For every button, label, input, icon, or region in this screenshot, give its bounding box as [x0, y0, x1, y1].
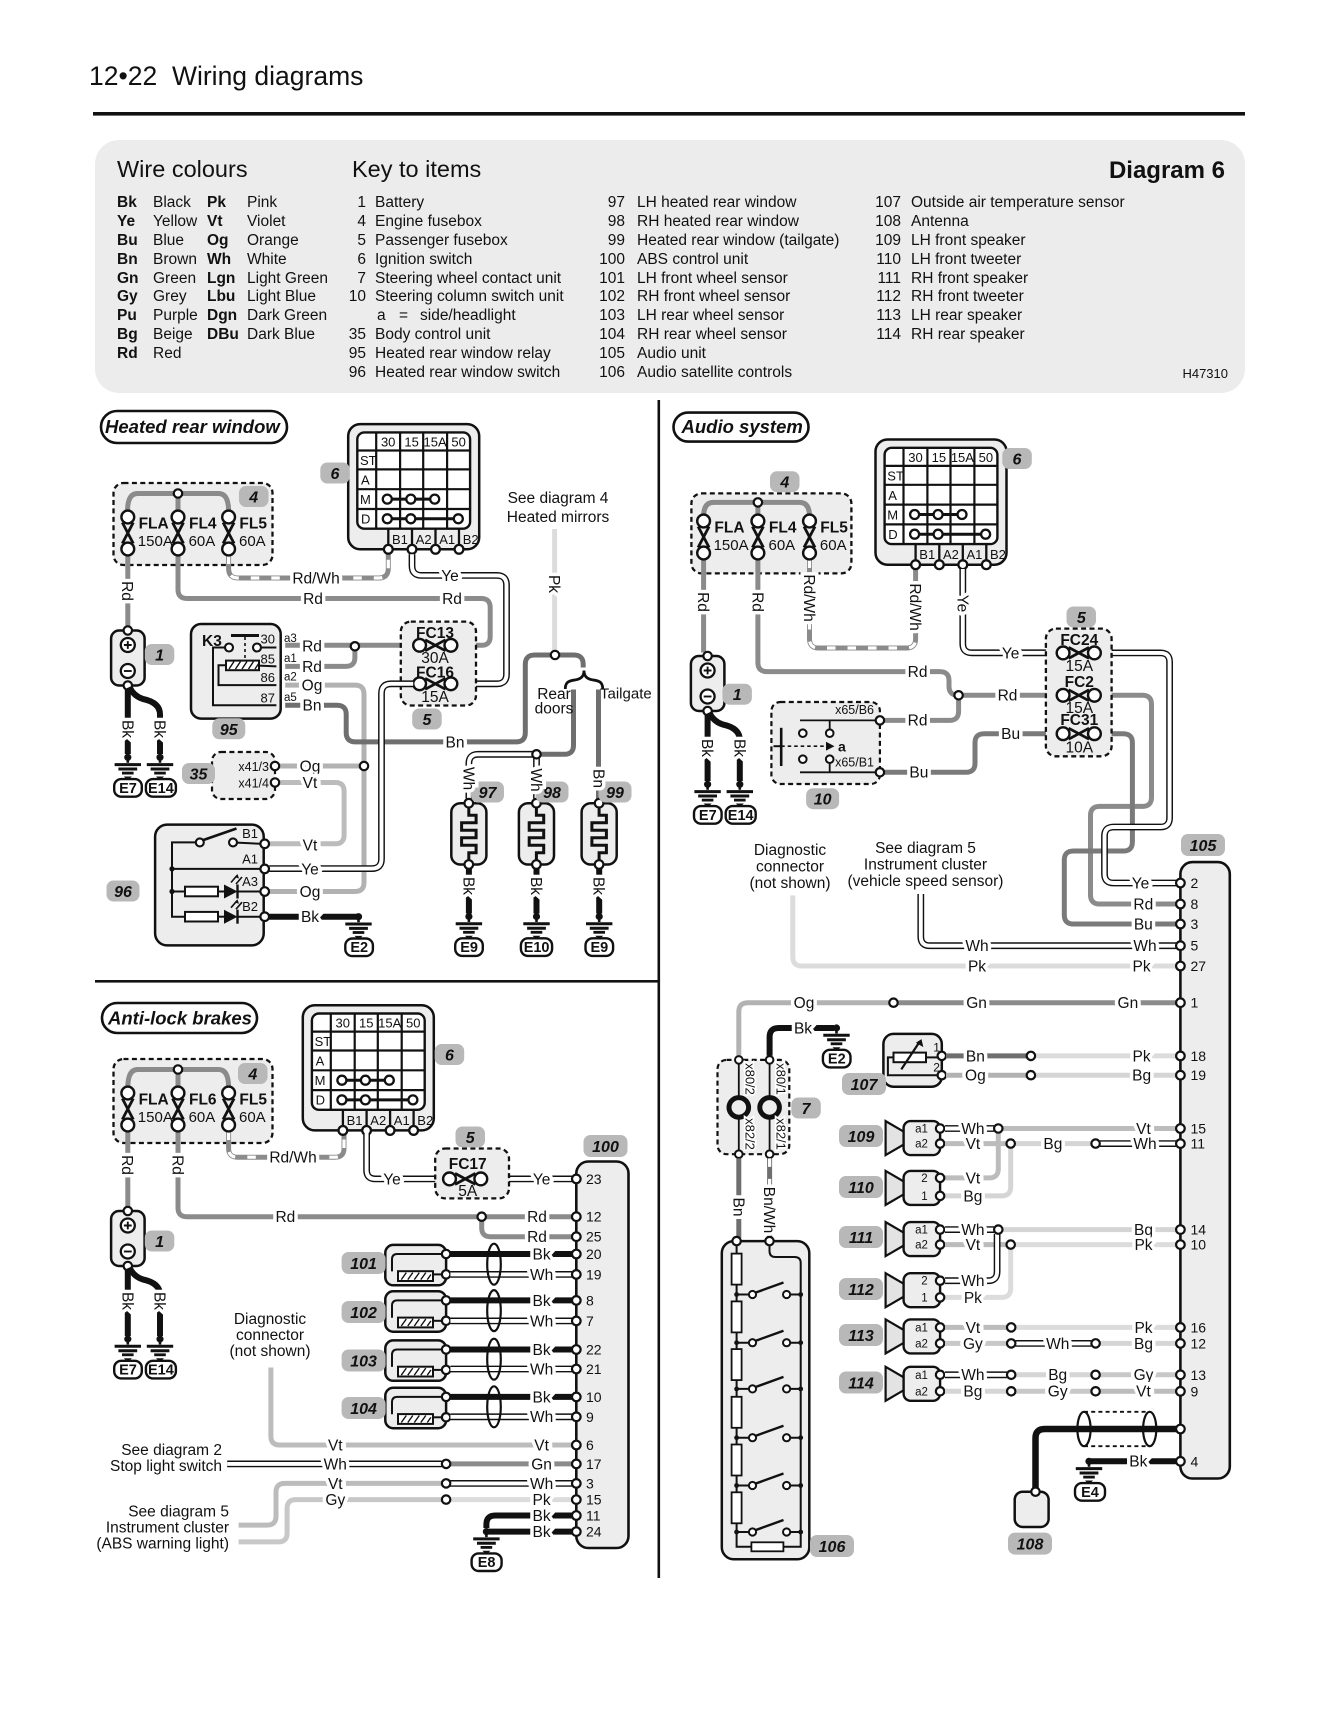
- text rear doors: [535, 686, 574, 718]
- ABS pins: [572, 1175, 581, 1536]
- svg-text:Bk: Bk: [590, 877, 607, 895]
- svg-text:Dgn: Dgn: [207, 307, 237, 324]
- wire Bk: audio pin 4 to ground E4: [1091, 1458, 1176, 1464]
- svg-text:1: 1: [733, 687, 742, 704]
- wire Rd: FC13 to relay pin 30/a3: [285, 643, 413, 648]
- svg-text:E2: E2: [828, 1052, 846, 1068]
- svg-text:Rd/Wh: Rd/Wh: [800, 574, 817, 621]
- svg-text:Vt: Vt: [328, 1476, 343, 1493]
- wire Wh: sensor 101 to pin 19: [450, 1271, 572, 1278]
- wire Gy: 113 a2: [945, 1341, 1007, 1346]
- svg-text:Red: Red: [153, 345, 181, 362]
- key items column 3: [875, 194, 1125, 343]
- wire Wh: 109 a1: [945, 1125, 994, 1132]
- svg-text:15A: 15A: [1066, 658, 1094, 675]
- RH front speaker 111: [886, 1222, 941, 1256]
- wire Ye: ignition A1 to fuse FC24: [963, 569, 1057, 653]
- svg-text:Ye: Ye: [383, 1171, 401, 1188]
- wire Bk: battery to E7: [125, 1269, 131, 1336]
- svg-text:(vehicle speed sensor): (vehicle speed sensor): [848, 873, 1004, 890]
- wire Rd: FLA to battery: [701, 560, 706, 653]
- svg-text:Green: Green: [153, 270, 196, 287]
- svg-text:Dark Blue: Dark Blue: [247, 326, 315, 343]
- svg-text:H47310: H47310: [1182, 366, 1228, 381]
- svg-text:Bg: Bg: [1134, 1336, 1153, 1353]
- fuse FL4 60A: [752, 515, 797, 560]
- antenna 108: [1015, 1488, 1049, 1528]
- text see diagram 5 instrument cluster: [96, 1504, 229, 1553]
- wire Bk window 97 to ground: [466, 869, 472, 914]
- badge 101: [342, 1252, 386, 1274]
- ignition switch 6: [876, 440, 1007, 570]
- wire Rd: FL6 to ABS pin 12: [178, 1132, 572, 1217]
- svg-text:101: 101: [350, 1256, 377, 1273]
- svg-text:Bk: Bk: [117, 194, 137, 211]
- svg-text:Rd: Rd: [748, 592, 765, 612]
- text diagnostic connector: [230, 1311, 311, 1360]
- wire Wh: junction to window 97: [469, 754, 537, 798]
- svg-text:Pk: Pk: [207, 194, 226, 211]
- svg-text:E8: E8: [478, 1555, 496, 1571]
- wire Vt: 111 a2: [945, 1242, 1006, 1247]
- badge 112: [839, 1278, 883, 1300]
- battery 1: [691, 652, 725, 715]
- wire Bk window 98 to ground: [534, 869, 540, 914]
- svg-text:9: 9: [1191, 1383, 1199, 1399]
- svg-text:Key to items: Key to items: [352, 156, 481, 182]
- battery 1: [111, 626, 145, 689]
- svg-text:Pink: Pink: [247, 194, 277, 211]
- svg-text:doors: doors: [535, 701, 574, 718]
- svg-text:Pk: Pk: [1133, 958, 1151, 975]
- engine fusebox 4 (dashed): [114, 483, 273, 565]
- badge 6: [435, 1044, 465, 1065]
- svg-text:Pk: Pk: [1133, 1048, 1151, 1065]
- wire Vt: body control x41/4 to switch B1: [269, 783, 344, 844]
- svg-text:Og: Og: [300, 758, 321, 775]
- svg-text:side/headlight: side/headlight: [420, 307, 516, 324]
- svg-text:96: 96: [349, 364, 366, 381]
- wire Wh: junction to pin 3: [446, 1480, 572, 1487]
- wire Ye: FC24 to audio pin 2: [1101, 653, 1176, 883]
- relay pin labels a3 a1 a2 a5: [284, 633, 297, 704]
- svg-text:Rd: Rd: [118, 1155, 135, 1175]
- audio unit pins: [1176, 879, 1185, 1466]
- svg-text:Rd: Rd: [908, 664, 928, 681]
- svg-text:E7: E7: [119, 781, 137, 797]
- svg-text:Bn: Bn: [966, 1048, 985, 1065]
- wire Bk: battery to E7: [705, 714, 711, 781]
- junction nodes 109: [994, 1124, 1002, 1132]
- svg-text:Ye: Ye: [1002, 645, 1020, 662]
- steering column switch unit 10 (dashed): [771, 702, 884, 784]
- svg-text:Bk: Bk: [527, 877, 544, 895]
- svg-text:114: 114: [848, 1376, 874, 1393]
- svg-text:110: 110: [848, 1180, 874, 1197]
- ground E14: [146, 1335, 176, 1378]
- svg-text:2: 2: [921, 1276, 927, 1288]
- svg-text:Wh: Wh: [324, 1456, 347, 1473]
- badge 1: [145, 644, 175, 665]
- ignition switch 6: [348, 424, 479, 554]
- svg-text:Orange: Orange: [247, 232, 299, 249]
- badge 7: [791, 1098, 821, 1119]
- svg-text:Wire colours: Wire colours: [117, 156, 248, 182]
- junction node 107 pin2: [1027, 1071, 1035, 1079]
- svg-text:LH front tweeter: LH front tweeter: [911, 251, 1021, 268]
- svg-text:x41/3: x41/3: [238, 760, 269, 774]
- svg-text:RH heated rear window: RH heated rear window: [637, 213, 800, 230]
- wire Vt: instrument cluster to junction row 3: [239, 1483, 442, 1525]
- svg-text:Bg: Bg: [1132, 1068, 1151, 1085]
- wire Gy: mid segment 114 a2: [1016, 1389, 1092, 1394]
- svg-text:Og: Og: [207, 232, 229, 249]
- svg-text:Heated mirrors: Heated mirrors: [507, 509, 610, 526]
- svg-text:Rd: Rd: [527, 1209, 547, 1226]
- svg-text:Wh: Wh: [530, 1409, 553, 1426]
- svg-text:10: 10: [349, 288, 367, 305]
- svg-text:a2: a2: [284, 672, 297, 684]
- svg-text:DBu: DBu: [207, 326, 239, 343]
- badge 103: [342, 1350, 386, 1372]
- note: see diagram 4 heated mirrors: [507, 490, 610, 526]
- svg-text:(not shown): (not shown): [750, 875, 831, 892]
- svg-text:Bk: Bk: [1129, 1454, 1147, 1471]
- svg-text:Wh: Wh: [1046, 1336, 1069, 1353]
- brace splitting rear window feed: [565, 671, 602, 690]
- svg-text:See diagram 5: See diagram 5: [875, 840, 976, 857]
- svg-text:Diagnostic: Diagnostic: [754, 842, 827, 859]
- LH rear wheel sensor 103: [385, 1340, 450, 1380]
- wire colour legend: [117, 194, 328, 362]
- ABS pin numbers: [586, 1171, 602, 1540]
- wire Bg: 114 a2: [945, 1389, 1007, 1394]
- svg-text:Bu: Bu: [909, 765, 928, 782]
- svg-text:Bk: Bk: [731, 739, 748, 757]
- svg-text:Steering wheel contact unit: Steering wheel contact unit: [375, 270, 562, 287]
- svg-text:Rd: Rd: [442, 591, 462, 608]
- svg-text:10: 10: [1191, 1237, 1207, 1253]
- svg-text:x65/B6: x65/B6: [835, 703, 874, 717]
- svg-text:FL5: FL5: [239, 516, 267, 533]
- svg-text:Instrument cluster: Instrument cluster: [864, 857, 987, 874]
- svg-text:35: 35: [349, 326, 366, 343]
- svg-text:a1: a1: [284, 653, 297, 665]
- wire Wh: sensor 104 to pin 9: [450, 1413, 572, 1420]
- svg-text:Bg: Bg: [117, 326, 138, 343]
- wire Bn: relay pin 87/a5 to rear window feeds: [285, 655, 583, 742]
- svg-text:Heated rear window: Heated rear window: [105, 416, 281, 437]
- svg-text:150A: 150A: [138, 1109, 173, 1126]
- svg-text:106: 106: [599, 364, 625, 381]
- junction node Rd: [954, 691, 962, 699]
- badge 5: [456, 1127, 486, 1148]
- svg-text:Beige: Beige: [153, 326, 193, 343]
- node on bus: [754, 498, 762, 506]
- svg-text:12•22 Wiring diagrams: 12•22 Wiring diagrams: [89, 61, 363, 91]
- svg-text:Rd/Wh: Rd/Wh: [906, 583, 923, 630]
- svg-text:114: 114: [876, 326, 901, 343]
- wire Bk window 99 to ground: [596, 869, 602, 914]
- wire Bk: sensor 104 to pin 10: [450, 1394, 572, 1400]
- wire Bk: battery to E14: [709, 713, 740, 782]
- junction node Pk/Bn: [551, 651, 559, 659]
- svg-text:FLA: FLA: [139, 1092, 169, 1109]
- svg-text:B1: B1: [242, 826, 258, 841]
- svg-text:23: 23: [586, 1171, 602, 1187]
- svg-text:13: 13: [1191, 1367, 1207, 1383]
- svg-text:Bg: Bg: [963, 1188, 982, 1205]
- svg-text:See diagram 4: See diagram 4: [508, 490, 609, 507]
- badge 97: [471, 782, 504, 803]
- svg-text:100: 100: [599, 251, 625, 268]
- wire Rd/Wh: FL5 to ignition B1: [810, 560, 916, 649]
- svg-text:connector: connector: [236, 1327, 304, 1344]
- svg-text:A3: A3: [242, 874, 258, 889]
- svg-text:a: a: [838, 739, 846, 755]
- fuse FC16: [413, 677, 457, 690]
- badge 111: [839, 1226, 883, 1248]
- svg-text:5: 5: [1077, 610, 1087, 627]
- svg-text:60A: 60A: [239, 533, 266, 550]
- svg-text:86: 86: [261, 670, 275, 685]
- wire Ye: ignition A2 to fuse FC16: [412, 554, 507, 684]
- junction nodes 111: [994, 1225, 1002, 1233]
- svg-text:Rd: Rd: [302, 659, 322, 676]
- svg-text:LH rear wheel sensor: LH rear wheel sensor: [637, 307, 784, 324]
- svg-text:Bg: Bg: [1043, 1136, 1062, 1153]
- svg-text:(not shown): (not shown): [230, 1343, 311, 1360]
- wire Bn: rear doors branch down to Wh junction: [541, 690, 574, 755]
- svg-text:See diagram 5: See diagram 5: [128, 1504, 229, 1521]
- svg-text:Gn: Gn: [1118, 995, 1139, 1012]
- svg-text:4: 4: [247, 1067, 257, 1084]
- svg-text:a5: a5: [284, 692, 297, 704]
- wire Wh: stop light switch row: [227, 1461, 442, 1468]
- svg-text:E4: E4: [1081, 1485, 1099, 1501]
- fuse FLA 150A: [121, 1087, 172, 1132]
- svg-text:1: 1: [1191, 995, 1199, 1011]
- svg-text:Gn: Gn: [531, 1456, 552, 1473]
- fusebox 5 with FC13 FC16: [401, 622, 476, 706]
- wire Wh: junction to window 98: [533, 754, 540, 798]
- wire Bk: sensor 101 to pin 20: [450, 1251, 572, 1257]
- svg-text:Bn: Bn: [303, 698, 322, 715]
- relay K3 box 95: [191, 624, 281, 719]
- svg-text:FL6: FL6: [189, 1092, 217, 1109]
- wire Bk: contact unit x80/1 to ground E2: [770, 1028, 834, 1056]
- wire Bk: antenna lead to audio: [1036, 1429, 1177, 1488]
- svg-text:1: 1: [921, 1292, 927, 1304]
- badge 113: [839, 1324, 883, 1346]
- svg-text:Audio unit: Audio unit: [637, 345, 707, 362]
- wire Vt: to audio pin 9: [1100, 1389, 1176, 1394]
- svg-text:99: 99: [606, 785, 624, 802]
- svg-text:97: 97: [608, 194, 625, 211]
- wire Bk: battery to E14: [130, 687, 161, 754]
- wire Rd: junction to ABS pin 25: [482, 1217, 572, 1237]
- svg-text:E14: E14: [728, 808, 754, 824]
- svg-text:Bk: Bk: [459, 877, 476, 895]
- svg-text:Black: Black: [153, 194, 191, 211]
- svg-text:Anti-lock brakes: Anti-lock brakes: [107, 1008, 252, 1029]
- wire Vt: to audio pin 15: [1003, 1126, 1176, 1131]
- wire Bk: battery to E7: [125, 689, 131, 755]
- LH heated rear window 97: [451, 799, 486, 869]
- wire Wh: mid segment 113 a2: [1016, 1340, 1092, 1347]
- badge 6: [1002, 448, 1032, 469]
- junction node Og/Gn: [889, 999, 897, 1007]
- svg-text:Bn/Wh: Bn/Wh: [760, 1187, 777, 1234]
- outside air temperature sensor 107: [883, 1034, 946, 1087]
- wire: fusebox bus (Rd): [128, 494, 229, 512]
- wire Bk: switch B2 to ground E2: [269, 914, 357, 920]
- svg-text:Bk: Bk: [533, 1389, 551, 1406]
- key panel background: [95, 140, 1245, 393]
- svg-text:Ye: Ye: [953, 595, 970, 613]
- svg-text:113: 113: [848, 1328, 874, 1345]
- svg-text:Wh: Wh: [530, 1476, 553, 1493]
- wire Og: relay pin 86/a2 down to body control and switch A3: [269, 685, 364, 891]
- svg-text:Vt: Vt: [966, 1170, 981, 1187]
- battery 1: [111, 1207, 145, 1270]
- svg-text:Vt: Vt: [303, 837, 318, 854]
- svg-text:5A: 5A: [458, 1183, 478, 1200]
- svg-text:Bg: Bg: [1048, 1367, 1067, 1384]
- svg-text:Wh: Wh: [530, 1361, 553, 1378]
- svg-text:FL4: FL4: [189, 516, 217, 533]
- fuse FL5 60A: [222, 511, 267, 556]
- svg-text:85: 85: [261, 652, 275, 667]
- wire Pk: to audio pin 18: [1035, 1053, 1176, 1058]
- svg-text:Vt: Vt: [966, 1136, 981, 1153]
- svg-text:E7: E7: [119, 1363, 137, 1379]
- svg-text:Bk: Bk: [151, 1292, 168, 1310]
- wire Og: body control x41/3: [279, 764, 364, 769]
- svg-text:25: 25: [586, 1229, 602, 1245]
- wire Ye: ignition A2 to fuse FC17: [367, 1133, 443, 1179]
- heated rear window switch 96: [155, 825, 269, 946]
- svg-text:Ye: Ye: [441, 568, 459, 585]
- fuse FC17: [443, 1173, 487, 1186]
- svg-text:Antenna: Antenna: [911, 213, 969, 230]
- key items column 2: [599, 194, 839, 381]
- svg-text:Rd: Rd: [694, 592, 711, 612]
- audio panel wire labels: [694, 574, 1157, 1470]
- badge 108: [1008, 1533, 1052, 1555]
- svg-text:15: 15: [1191, 1121, 1207, 1137]
- svg-text:Gy: Gy: [1048, 1384, 1068, 1401]
- svg-text:Diagnostic: Diagnostic: [234, 1311, 307, 1328]
- wire Pk: junction to pin 15: [446, 1497, 572, 1502]
- svg-text:103: 103: [350, 1354, 377, 1371]
- svg-text:FL4: FL4: [769, 520, 797, 537]
- fuse FLA 150A: [121, 511, 172, 556]
- svg-text:Wh: Wh: [530, 1313, 553, 1330]
- svg-text:21: 21: [586, 1361, 602, 1377]
- svg-text:Rd: Rd: [117, 345, 138, 362]
- wire Rd: FC2 to audio pin 8: [1091, 695, 1177, 904]
- svg-text:Wh: Wh: [1133, 1136, 1156, 1153]
- svg-text:Wh: Wh: [207, 251, 231, 268]
- svg-text:Bu: Bu: [117, 232, 138, 249]
- svg-text:Brown: Brown: [153, 251, 197, 268]
- svg-text:Bk: Bk: [151, 720, 168, 738]
- svg-text:RH front wheel sensor: RH front wheel sensor: [637, 288, 790, 305]
- svg-text:Bn: Bn: [446, 734, 465, 751]
- passenger fusebox 5: [1046, 629, 1112, 757]
- svg-text:Rd/Wh: Rd/Wh: [292, 570, 339, 587]
- wire Pk: diagnostic connector to pin 27: [793, 895, 1176, 966]
- svg-text:113: 113: [876, 307, 901, 324]
- svg-text:5: 5: [466, 1130, 476, 1147]
- svg-text:Bk: Bk: [533, 1524, 551, 1541]
- svg-text:7: 7: [802, 1101, 812, 1118]
- wire Wh: sensor 103 to pin 21: [450, 1366, 572, 1373]
- svg-text:108: 108: [875, 213, 901, 230]
- badge 98: [536, 782, 569, 803]
- wire Gy: ABS warning light to junction row 15: [239, 1500, 442, 1542]
- svg-text:Vt: Vt: [534, 1437, 549, 1454]
- svg-text:Rd: Rd: [302, 639, 322, 656]
- svg-text:7: 7: [357, 270, 366, 287]
- wire Vt: 113 a1: [945, 1325, 1007, 1330]
- svg-text:Wh: Wh: [965, 938, 988, 955]
- wire Vt: 109 a2: [945, 1141, 1006, 1146]
- text diagnostic connector: [750, 842, 831, 892]
- svg-text:6: 6: [1013, 452, 1022, 469]
- svg-text:24: 24: [586, 1524, 602, 1540]
- svg-text:Outside air temperature sensor: Outside air temperature sensor: [911, 194, 1125, 211]
- badge 109: [839, 1125, 883, 1147]
- svg-text:Pk: Pk: [964, 1290, 982, 1307]
- svg-text:8: 8: [586, 1292, 594, 1308]
- wire Gn: junction to audio pin 1: [894, 1000, 1177, 1005]
- svg-text:108: 108: [1017, 1537, 1044, 1554]
- svg-text:15: 15: [586, 1492, 602, 1508]
- svg-text:E14: E14: [148, 781, 174, 797]
- svg-text:Light Green: Light Green: [247, 270, 328, 287]
- wire Rd/Wh: FL5 to ignition B1: [229, 1132, 344, 1158]
- twisted pair loop 102: [487, 1290, 501, 1331]
- svg-text:109: 109: [848, 1129, 875, 1146]
- wire Bn: tailgate branch to window 99: [596, 690, 601, 799]
- svg-text:97: 97: [479, 785, 498, 802]
- key items column 1: [349, 194, 565, 381]
- svg-text:Pk: Pk: [533, 1492, 551, 1509]
- svg-text:FL5: FL5: [820, 520, 848, 537]
- svg-text:111: 111: [877, 270, 901, 287]
- twisted pair loop 104: [487, 1386, 501, 1427]
- svg-text:Pk: Pk: [545, 575, 562, 593]
- ABS wire labels: [118, 1150, 553, 1541]
- wire Wh: 114 a1: [945, 1371, 1007, 1378]
- svg-text:Wh: Wh: [961, 1367, 984, 1384]
- svg-text:1: 1: [155, 648, 164, 665]
- svg-text:16: 16: [1191, 1319, 1207, 1335]
- svg-text:60A: 60A: [239, 1109, 266, 1126]
- wire Rd/Wh: FL5 to ignition B1: [229, 554, 389, 578]
- wire Rd: junction down to x65/B6: [884, 695, 958, 720]
- wire Bk: battery to E14: [130, 1268, 161, 1337]
- badge 10: [806, 788, 839, 809]
- svg-text:11: 11: [1191, 1136, 1206, 1152]
- wire labels heated panel: [118, 568, 607, 926]
- svg-text:E10: E10: [524, 940, 550, 956]
- svg-text:19: 19: [1191, 1067, 1207, 1083]
- svg-text:8: 8: [1191, 896, 1199, 912]
- junction node 107 pin1: [1027, 1052, 1035, 1060]
